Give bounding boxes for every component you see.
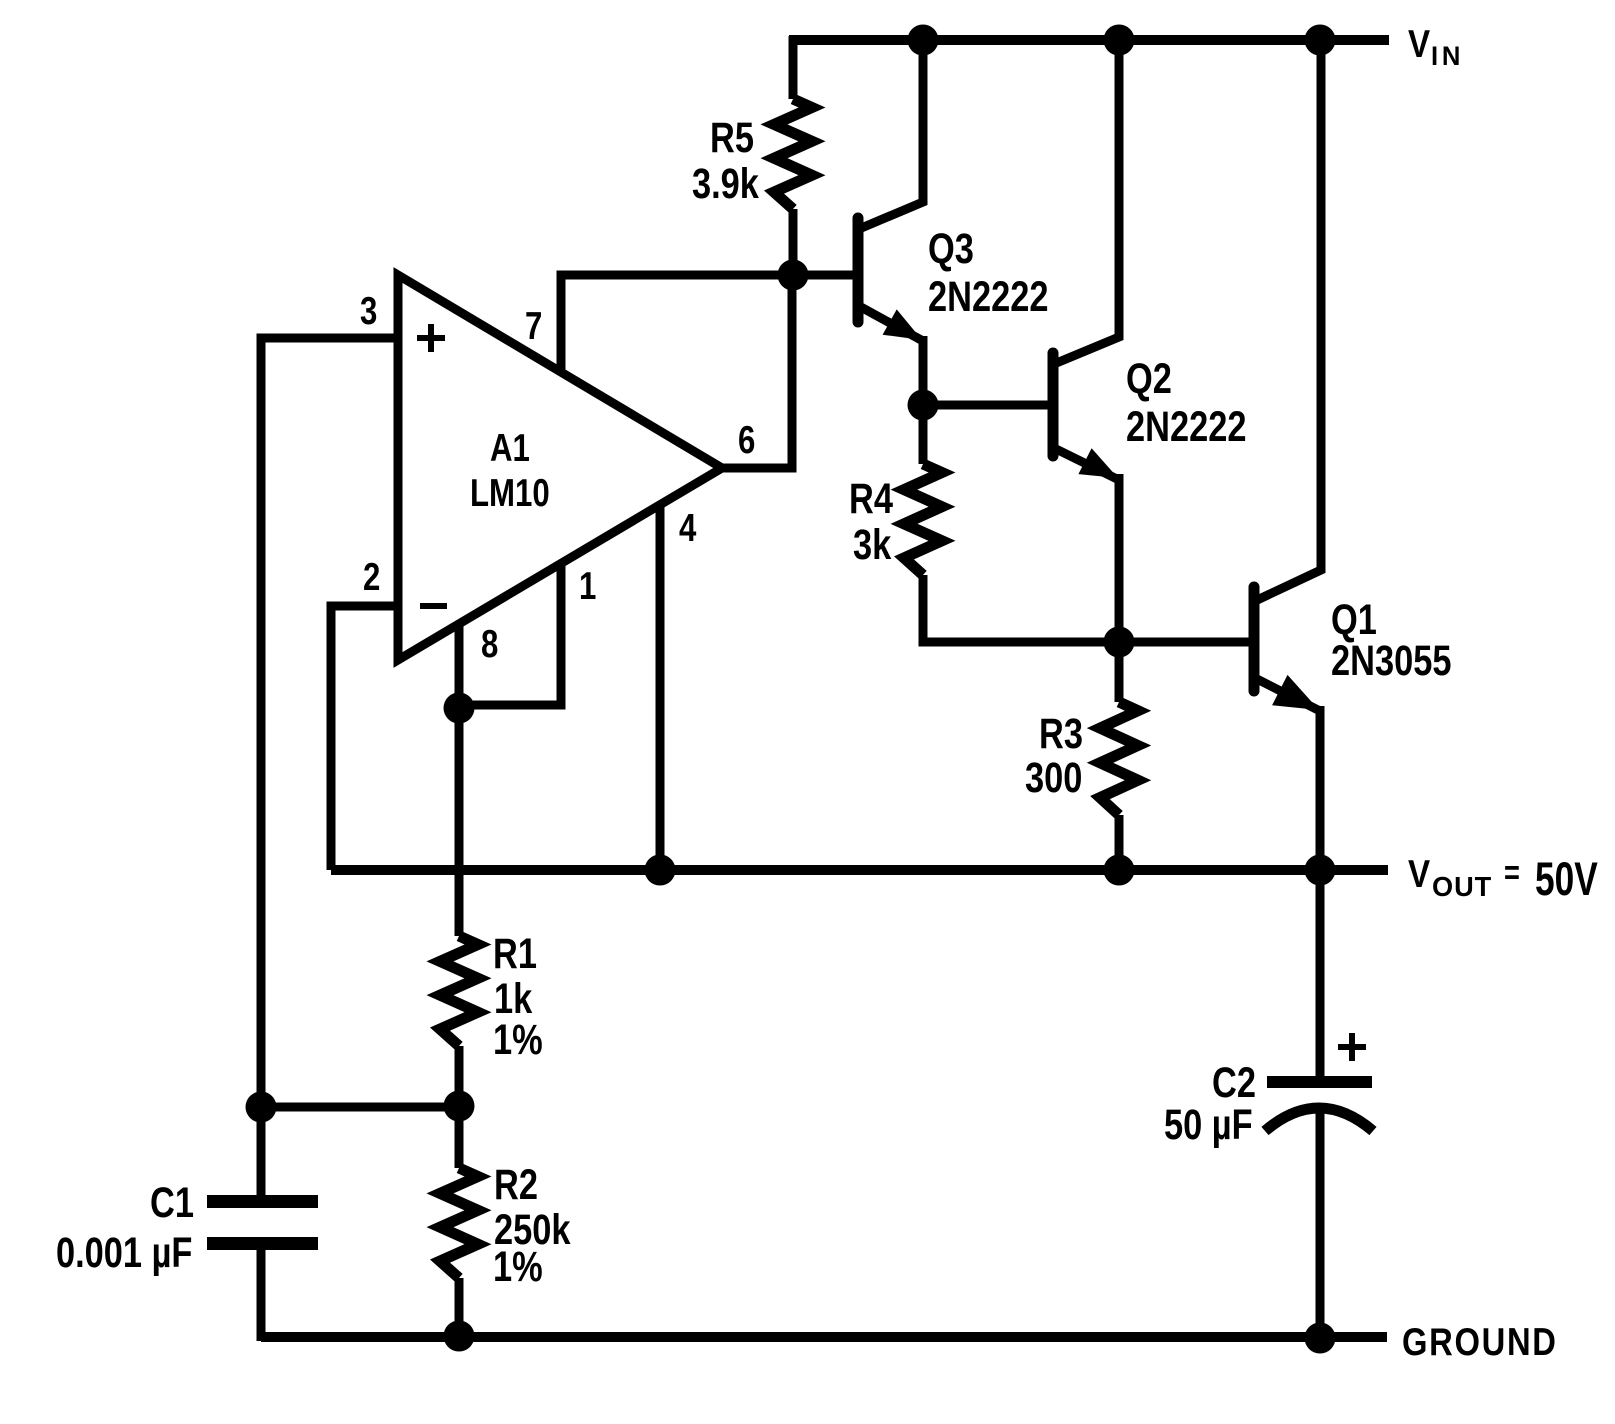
svg-text:7: 7 <box>525 305 542 348</box>
capacitor C1 <box>207 1107 318 1341</box>
svg-text:3: 3 <box>360 290 377 333</box>
value 3.9k <box>692 160 759 207</box>
svg-text:R5: R5 <box>710 114 754 161</box>
svg-text:C1: C1 <box>150 1179 194 1226</box>
node Vin/Q2 collector junction <box>1104 25 1135 56</box>
label R4 <box>849 475 893 522</box>
label R3 <box>1039 710 1083 757</box>
value 300 <box>1025 754 1082 801</box>
op-amp U1 A1 LM10 triangle <box>398 275 722 660</box>
node pin4/Vout junction <box>645 855 676 886</box>
wire pin 2 input feedback <box>331 606 398 870</box>
svg-text:R2: R2 <box>494 1161 538 1208</box>
wire pin 7 (op-amp top to junction) <box>561 275 793 373</box>
svg-text:R4: R4 <box>849 475 893 522</box>
wire Vin top rail <box>789 35 1389 45</box>
pin 2 label <box>363 556 380 599</box>
svg-text:3k: 3k <box>853 521 892 568</box>
wire pin 6 output to junction <box>722 275 792 468</box>
label R1 <box>493 930 537 977</box>
label R2 <box>494 1161 538 1208</box>
value Q2 2N2222 <box>1126 403 1246 450</box>
resistor R1 <box>440 706 478 1108</box>
svg-text:4: 4 <box>679 507 697 550</box>
transistor Q2 <box>1053 40 1119 642</box>
svg-text:0.001 µF: 0.001 µF <box>56 1229 192 1276</box>
pin 4 label <box>679 507 697 550</box>
op-amp minus input symbol <box>420 603 447 609</box>
node R1/R2/C1 junction <box>444 1091 475 1122</box>
label LM10 <box>470 472 550 515</box>
node pin8 junction <box>444 693 475 724</box>
resistor R3 <box>1100 638 1138 872</box>
net label V_OUT = 50V <box>1408 851 1430 895</box>
node C1 top junction <box>246 1092 277 1123</box>
node C2/ground junction <box>1305 1323 1336 1354</box>
svg-text:A1: A1 <box>490 427 530 470</box>
node Vin/Q3 collector junction <box>908 25 939 56</box>
svg-text:2N3055: 2N3055 <box>1331 637 1451 684</box>
wire ground rail <box>261 1332 1387 1342</box>
node Vin/Q1 collector junction <box>1305 25 1336 56</box>
svg-text:3.9k: 3.9k <box>692 160 759 207</box>
node Q1 emitter/Vout junction <box>1305 855 1336 886</box>
pin 7 label <box>525 305 542 348</box>
value R1 1% <box>493 1016 543 1063</box>
wire Q2 base <box>923 401 1050 410</box>
svg-text:Q3: Q3 <box>928 225 974 272</box>
svg-text:300: 300 <box>1025 754 1082 801</box>
wire pin 4 to Vout <box>656 505 665 870</box>
label C2 <box>1212 1059 1256 1106</box>
value Q3 2N2222 <box>928 273 1048 320</box>
svg-text:8: 8 <box>481 623 498 666</box>
value 250k <box>494 1206 571 1253</box>
pin 3 label <box>360 290 377 333</box>
op-amp plus input symbol <box>417 324 445 352</box>
wire pin 1 to pin 8 <box>459 564 561 705</box>
net label V_IN <box>1408 21 1430 65</box>
node R3/Vout junction <box>1104 855 1135 886</box>
svg-text:OUT: OUT <box>1432 871 1492 902</box>
net label GROUND <box>1402 1319 1558 1363</box>
node R5/pin7/pin6/Q3-base junction <box>778 260 809 291</box>
wire R1-R2 junction to C1 <box>261 1103 459 1112</box>
svg-text:50 µF: 50 µF <box>1164 1101 1253 1148</box>
resistor R5 <box>774 36 812 280</box>
label C1 <box>150 1179 194 1226</box>
svg-text:1%: 1% <box>493 1016 543 1063</box>
value 1k <box>494 975 533 1022</box>
label Q3 <box>928 225 974 272</box>
svg-text:2N2222: 2N2222 <box>1126 403 1246 450</box>
svg-text:50V: 50V <box>1535 852 1598 905</box>
svg-text:V: V <box>1408 851 1430 895</box>
wire Vout rail <box>331 865 1388 875</box>
label Q1 <box>1331 596 1377 643</box>
svg-text:LM10: LM10 <box>470 472 550 515</box>
value Q1 2N3055 <box>1331 637 1451 684</box>
svg-text:C2: C2 <box>1212 1059 1256 1106</box>
svg-text:GROUND: GROUND <box>1402 1319 1558 1363</box>
value 3k <box>853 521 892 568</box>
svg-text:R3: R3 <box>1039 710 1083 757</box>
pin 8 label <box>481 623 498 666</box>
svg-text:=: = <box>1504 853 1520 892</box>
svg-text:6: 6 <box>738 419 755 462</box>
node Q3 emitter/R4/Q2 base junction <box>908 390 939 421</box>
resistor R2 <box>440 1106 478 1340</box>
transistor Q3 <box>858 40 923 407</box>
label A1 <box>490 427 530 470</box>
svg-text:2N2222: 2N2222 <box>928 273 1048 320</box>
pin 6 label <box>738 419 755 462</box>
polarity + of C2 <box>1338 1033 1366 1061</box>
label R5 <box>710 114 754 161</box>
svg-text:Q2: Q2 <box>1126 355 1172 402</box>
node R4/Q2 emitter/R3/Q1 base junction <box>1104 627 1135 658</box>
svg-text:IN: IN <box>1431 40 1464 71</box>
resistor R4 <box>904 401 1123 642</box>
wire pin 8 <box>455 622 464 710</box>
value R2 1% <box>493 1243 543 1290</box>
svg-text:1%: 1% <box>493 1243 543 1290</box>
wire Q3 base from junction <box>789 271 856 280</box>
value 0.001 uF <box>56 1229 192 1276</box>
pin 1 label <box>579 565 596 608</box>
svg-text:2: 2 <box>363 556 380 599</box>
wire pin 3 input <box>261 338 398 1107</box>
value 50 uF <box>1164 1101 1253 1148</box>
node R2/ground junction <box>444 1321 475 1352</box>
transistor Q1 <box>1254 40 1321 870</box>
capacitor C2 <box>1265 866 1373 1341</box>
svg-text:R1: R1 <box>493 930 537 977</box>
wire Q1 base <box>1119 638 1251 647</box>
label Q2 <box>1126 355 1172 402</box>
svg-text:1: 1 <box>579 565 596 608</box>
svg-text:V: V <box>1408 21 1430 65</box>
